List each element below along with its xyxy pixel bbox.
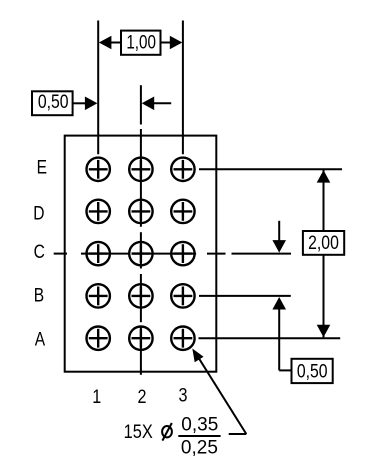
svg-text:C: C xyxy=(34,240,45,262)
svg-text:2,00: 2,00 xyxy=(308,231,339,253)
svg-text:15X: 15X xyxy=(124,421,153,442)
svg-text:1,00: 1,00 xyxy=(126,31,156,53)
svg-text:2: 2 xyxy=(138,386,147,408)
svg-text:B: B xyxy=(34,284,44,306)
svg-text:3: 3 xyxy=(179,384,188,406)
svg-text:A: A xyxy=(35,328,46,350)
svg-text:0,50: 0,50 xyxy=(38,90,69,112)
svg-text:1: 1 xyxy=(92,386,101,408)
svg-text:0,25: 0,25 xyxy=(181,437,218,458)
svg-text:D: D xyxy=(33,202,44,224)
svg-text:0,50: 0,50 xyxy=(297,360,328,382)
svg-text:E: E xyxy=(37,156,47,178)
svg-text:0,35: 0,35 xyxy=(181,415,218,436)
